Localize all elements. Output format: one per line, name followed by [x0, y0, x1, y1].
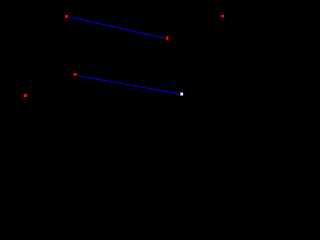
data point P6 (white marker, end of line 2): [180, 93, 183, 96]
data point P2 (red marker, end of line 1): [166, 36, 169, 40]
data point P4 (red marker, start of line 2): [73, 73, 77, 76]
data point P3 (red marker, top right outlier): [221, 15, 224, 17]
data point P5 (red marker, bottom left outlier): [24, 94, 27, 97]
data point P1 (red marker, start of line 1): [65, 15, 68, 18]
trend line 1 (upper blue fit line): [69, 17, 164, 38]
trend line 2 (lower blue fit line): [78, 76, 179, 94]
